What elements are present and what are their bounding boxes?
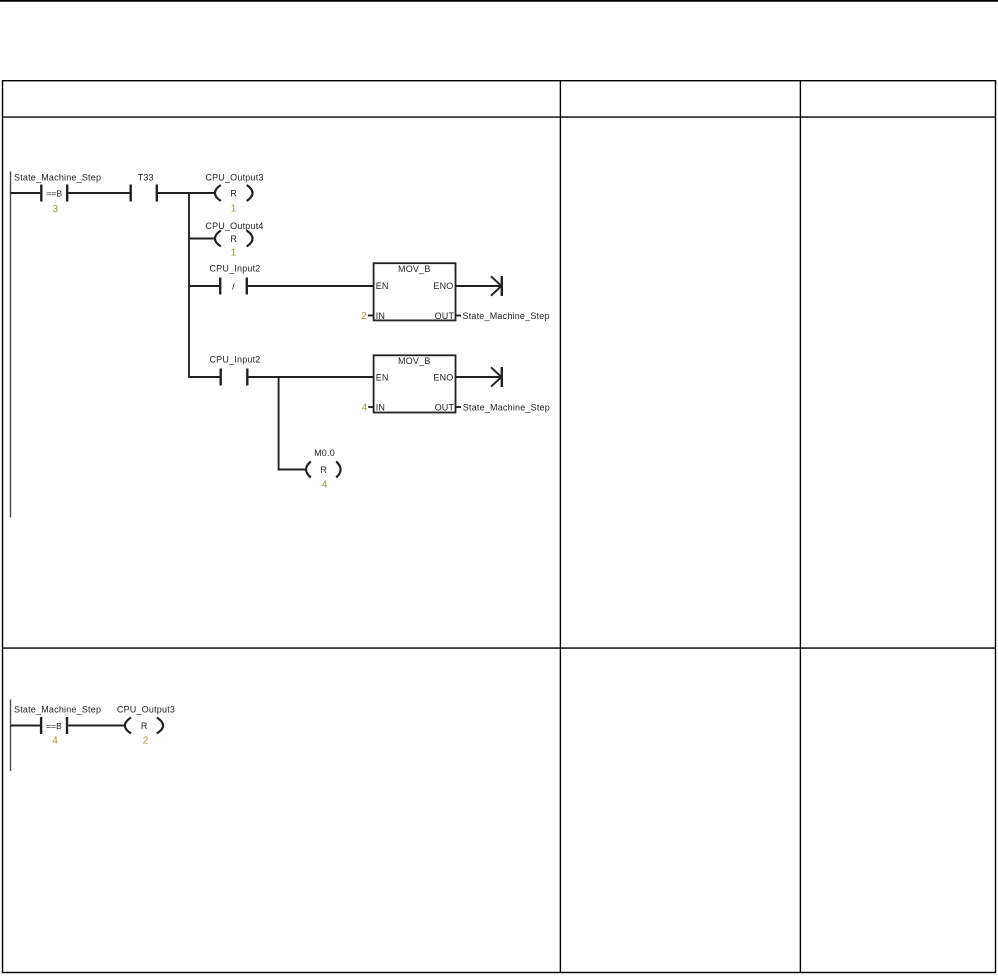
left power rail network 1 — [10, 172, 12, 518]
svg-text:OUT: OUT — [435, 402, 455, 412]
wire rail to contact 1 — [11, 192, 41, 194]
svg-text:State_Machine_Step: State_Machine_Step — [463, 311, 550, 321]
arrow continuation symbol rung 3 — [491, 276, 502, 296]
wire T33 to coil CPU_Output3 (branch node at x=189) — [158, 192, 216, 194]
contact T33 — [131, 173, 157, 202]
svg-text:4: 4 — [52, 736, 58, 747]
svg-text:R: R — [141, 721, 148, 731]
svg-text:ENO: ENO — [433, 373, 453, 383]
wire branch vertical from rung 1 down to rung 4 — [188, 192, 190, 378]
wire rail to contact network 2 — [11, 725, 41, 727]
svg-text:CPU_Input2: CPU_Input2 — [209, 354, 260, 364]
coil CPU_Output4 (R) reset, value 1 — [205, 221, 263, 259]
svg-text:IN: IN — [376, 402, 385, 412]
contact CPU_Input2 normally open rung 4 — [209, 354, 260, 385]
coil CPU_Output3 (R) reset, value 1 — [205, 173, 263, 215]
svg-text:EN: EN — [376, 281, 389, 291]
wire contact to coil CPU_Output3 network 2 — [68, 725, 126, 727]
svg-text:/: / — [232, 282, 235, 292]
contact State_Machine_Step ==B compare, value 4 (network 2) — [14, 704, 101, 746]
wire ENO output of block 2 — [456, 376, 501, 378]
svg-text:ENO: ENO — [433, 281, 453, 291]
wire branch to coil CPU_Output4 — [189, 238, 216, 240]
svg-text:T33: T33 — [138, 173, 154, 183]
function block MOV_B 2 — [362, 355, 461, 413]
svg-text:4: 4 — [362, 402, 368, 413]
svg-text:IN: IN — [376, 311, 385, 321]
wire contact to MOV_B block 1 EN — [248, 285, 374, 287]
svg-text:M0.0: M0.0 — [314, 448, 335, 458]
svg-text:State_Machine_Step: State_Machine_Step — [14, 173, 101, 183]
wire junction vertical down to M0.0 rung — [278, 377, 280, 470]
left power rail network 2 — [10, 700, 12, 772]
svg-text:CPU_Output3: CPU_Output3 — [205, 173, 263, 183]
svg-text:2: 2 — [361, 311, 367, 322]
svg-text:1: 1 — [231, 248, 237, 259]
svg-text:State_Machine_Step: State_Machine_Step — [14, 704, 101, 714]
svg-text:4: 4 — [322, 480, 328, 491]
svg-text:==B: ==B — [46, 721, 62, 731]
wire elbow to coil M0.0 — [278, 469, 307, 471]
svg-text:2: 2 — [143, 736, 149, 747]
function block MOV_B 1 — [361, 263, 461, 322]
svg-text:CPU_Output4: CPU_Output4 — [205, 221, 263, 231]
svg-text:MOV_B: MOV_B — [398, 264, 431, 274]
arrow continuation symbol rung 4 — [491, 367, 502, 387]
svg-text:EN: EN — [376, 373, 389, 383]
svg-text:3: 3 — [53, 204, 59, 215]
wire ENO output of block 1 — [456, 285, 501, 287]
contact State_Machine_Step ==B compare, value 3 — [14, 173, 101, 215]
contact CPU_Input2 normally closed — [209, 263, 260, 294]
svg-text:OUT: OUT — [435, 311, 455, 321]
svg-text:==B: ==B — [46, 188, 62, 198]
svg-text:R: R — [230, 188, 237, 198]
wire branch to contact CPU_Input2 NC — [189, 285, 219, 287]
svg-text:R: R — [230, 234, 237, 244]
svg-text:CPU_Output3: CPU_Output3 — [117, 704, 175, 714]
wire contact to MOV_B block 2 EN (junction node at x=278.5) — [249, 376, 374, 378]
svg-text:MOV_B: MOV_B — [398, 356, 431, 366]
coil CPU_Output3 (R) reset, value 2 (network 2) — [117, 704, 175, 746]
wire branch elbow to contact CPU_Input2 rung 4 — [189, 376, 220, 378]
svg-text:State_Machine_Step: State_Machine_Step — [463, 403, 550, 413]
svg-text:R: R — [320, 465, 327, 475]
svg-text:CPU_Input2: CPU_Input2 — [209, 263, 260, 273]
coil M0.0 (R) reset, value 4 — [306, 448, 341, 491]
svg-text:1: 1 — [231, 203, 237, 214]
wire contact 1 to contact T33 — [68, 192, 129, 194]
